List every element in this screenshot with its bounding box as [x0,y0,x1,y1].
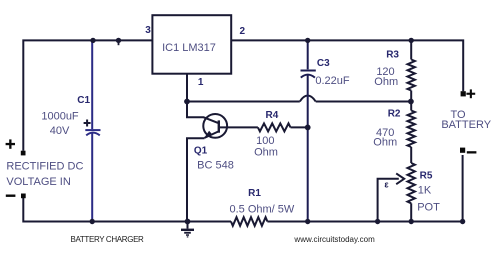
svg-text:0.5 Ohm/ 5W: 0.5 Ohm/ 5W [230,204,295,216]
svg-text:40V: 40V [50,125,70,137]
svg-text:ε: ε [384,180,389,190]
svg-text:POT: POT [417,201,440,213]
svg-text:100: 100 [256,135,274,147]
svg-text:0.22uF: 0.22uF [315,75,350,87]
svg-text:VOLTAGE IN: VOLTAGE IN [6,176,70,188]
svg-text:R2: R2 [388,109,401,120]
svg-text:IC1 LM317: IC1 LM317 [162,42,216,54]
svg-text:1K: 1K [418,184,432,196]
svg-text:RECTIFIED DC: RECTIFIED DC [6,160,83,172]
svg-text:BC 548: BC 548 [197,159,234,171]
svg-text:3: 3 [145,25,151,36]
svg-text:www.circuitstoday.com: www.circuitstoday.com [293,235,375,244]
svg-text:Ohm: Ohm [373,136,397,148]
svg-text:BATTERY CHARGER: BATTERY CHARGER [71,235,145,244]
svg-text:Q1: Q1 [194,145,208,156]
svg-text:1000uF: 1000uF [41,110,79,122]
svg-text:2: 2 [240,26,246,37]
svg-text:Ohm: Ohm [374,76,398,88]
svg-text:Ohm: Ohm [254,146,278,158]
svg-text:R1: R1 [248,188,261,199]
svg-text:R3: R3 [386,50,399,61]
svg-text:R4: R4 [266,110,279,121]
svg-text:C3: C3 [317,58,330,69]
svg-text:BATTERY: BATTERY [441,119,491,131]
svg-text:1: 1 [198,77,204,88]
svg-text:C1: C1 [77,95,90,106]
svg-text:R5: R5 [420,170,433,181]
